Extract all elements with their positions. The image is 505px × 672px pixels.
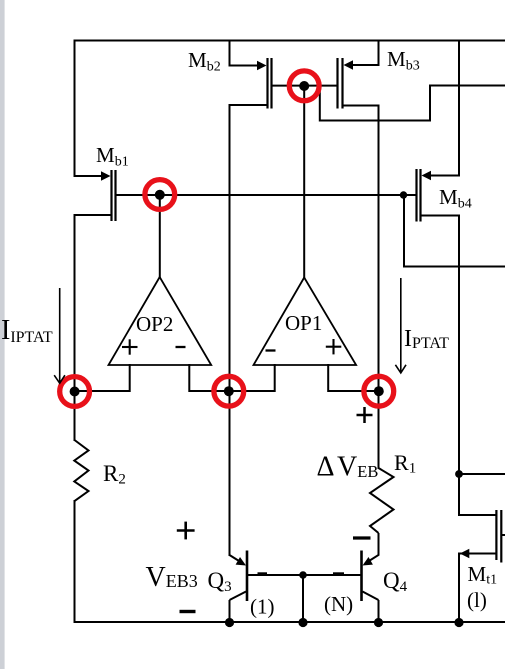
tick dash on base line right (333, 572, 344, 575)
transistor Mb3 (338, 58, 354, 109)
node circle N2 Mb2/Mb3 drains (289, 71, 319, 101)
transistor Mb2 (257, 58, 272, 109)
wire: top supply rail (75, 40, 505, 42)
current arrow IIPTAT (54, 288, 65, 383)
svg-text:(N): (N) (324, 592, 353, 616)
svg-text:VEB3: VEB3 (146, 562, 198, 593)
op-amp OP2 (109, 277, 212, 365)
wire: OP1 plus input wire to right node (328, 365, 378, 391)
wire: Mb4 drain branch down then right (404, 195, 505, 267)
resistor R1 (370, 468, 394, 533)
svg-text:R1: R1 (394, 450, 416, 477)
node circle N4 center (214, 376, 244, 406)
transistor Mt1 (460, 510, 505, 563)
wire: Mb3 gate feed from rail (353, 41, 379, 66)
junction dot Mb4 drain branch (400, 191, 407, 198)
wire: Mb3 source lead going right then down to R1 node (344, 106, 379, 469)
current arrow IPTAT (395, 278, 406, 373)
wire: Mb4 source lead right then down to Mt1 drain (421, 216, 497, 516)
wire: Mb2 source lead going left then down (to OP2 minus node and Q3) (230, 105, 267, 555)
wire: OP1 minus input wire from center node (229, 365, 275, 391)
wire: OP2 minus input wire to center node (189, 365, 229, 391)
wire: Mb1 source lead going left then down to left node (75, 215, 111, 440)
svg-text:(1): (1) (250, 595, 275, 619)
wire: base line drop to bottom rail (302, 575, 304, 622)
wire: Mb4 gate feed from rail (431, 41, 460, 176)
wire: OP1 output stem (303, 86, 305, 278)
junction dot rail base (298, 618, 307, 627)
svg-text:ΔVEB: ΔVEB (317, 452, 379, 483)
junction dot rail Mt1 (454, 618, 463, 627)
wire: Q3/Q4 base line (248, 574, 361, 576)
svg-text:(l): (l) (467, 588, 487, 612)
wire: left vertical from rail to Mb1 gate (74, 41, 76, 177)
wire: mid horizontal line Mb1 drain to Mb4 drain (117, 194, 417, 196)
junction dot rail Q3 (225, 618, 234, 627)
svg-text:R2: R2 (103, 461, 126, 488)
transistor Q3 (230, 551, 248, 623)
wire: Mb1 gate lead (75, 175, 103, 177)
wire: branch right from dot above Mt1 (459, 473, 505, 475)
wire: Mt1 gate tail down to bottom rail (458, 554, 460, 623)
svg-text:Q3: Q3 (208, 568, 232, 595)
node circle N1 on Mb1 drain (145, 180, 175, 210)
wire: OP2 plus input wire from left node (75, 365, 130, 391)
node circle N5 right (364, 376, 394, 406)
svg-text:Mb4: Mb4 (439, 185, 472, 212)
wire: Mb2/Mb3 drain node line (272, 85, 338, 87)
op-amp OP1 (254, 278, 357, 366)
node circle N3 left (60, 377, 90, 407)
transistor Mb1 (101, 170, 116, 221)
label plus VEB3 (177, 522, 195, 540)
junction dot rail Q4 (374, 618, 383, 627)
svg-text:Mt1: Mt1 (468, 562, 498, 588)
svg-text:Mb1: Mb1 (96, 143, 129, 170)
junction dot base line (299, 571, 307, 579)
label minus VEB3 (180, 610, 196, 613)
transistor Mb4 (417, 169, 432, 222)
label plus at right node (357, 407, 373, 423)
svg-text:OP1: OP1 (285, 311, 322, 335)
wire: Mb2 gate feed from rail (230, 41, 259, 66)
svg-text:IPTAT: IPTAT (404, 326, 449, 352)
svg-text:IIPTAT: IIPTAT (1, 315, 53, 346)
svg-text:Q4: Q4 (383, 568, 408, 595)
resistor R2 (74, 440, 88, 501)
label minus below R1 (353, 536, 371, 539)
svg-text:Mb2: Mb2 (188, 48, 221, 75)
left gray margin band (0, 0, 5, 669)
wire: branch down from drain node line (320, 86, 505, 121)
transistor Q4 (362, 533, 379, 622)
junction dot above Mt1 (455, 470, 463, 478)
wire: R2 bottom to bottom rail corner (75, 501, 505, 622)
svg-text:OP2: OP2 (136, 312, 173, 336)
svg-text:Mb3: Mb3 (387, 47, 420, 74)
tick dash on base line left (258, 572, 268, 575)
wire: OP2 output stem (159, 195, 161, 277)
